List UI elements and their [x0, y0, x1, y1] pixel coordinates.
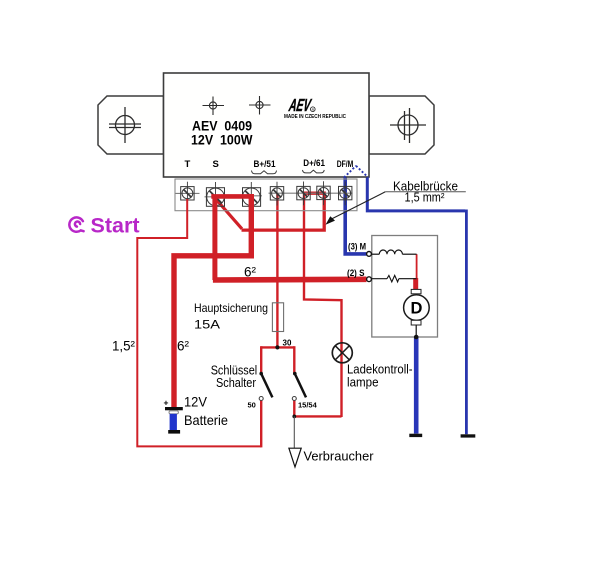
svg-text:15A: 15A: [194, 318, 220, 332]
svg-text:B+/51: B+/51: [254, 159, 277, 170]
svg-text:12V 100W: 12V 100W: [191, 133, 253, 148]
svg-text:DF/M: DF/M: [337, 159, 354, 169]
svg-text:50: 50: [248, 400, 256, 409]
svg-text:Schalter: Schalter: [216, 376, 256, 390]
svg-text:1,5 mm²: 1,5 mm²: [405, 191, 445, 205]
svg-text:Ladekontroll-: Ladekontroll-: [347, 363, 413, 377]
svg-text:D: D: [410, 300, 422, 318]
svg-text:AEV 0409: AEV 0409: [192, 119, 252, 134]
svg-text:S: S: [213, 159, 219, 170]
svg-text:T: T: [185, 159, 191, 170]
svg-text:Hauptsicherung: Hauptsicherung: [194, 301, 268, 315]
svg-text:6²: 6²: [177, 339, 189, 354]
svg-text:AEV: AEV: [287, 95, 313, 115]
svg-text:30: 30: [283, 339, 292, 348]
svg-text:12V: 12V: [184, 394, 208, 409]
svg-text:15/54: 15/54: [298, 400, 318, 409]
svg-text:+: +: [164, 398, 169, 408]
svg-text:6²: 6²: [244, 265, 256, 280]
svg-text:(2) S: (2) S: [347, 268, 365, 278]
svg-text:Verbraucher: Verbraucher: [304, 449, 375, 464]
svg-text:Start: Start: [91, 215, 140, 238]
svg-text:Batterie: Batterie: [184, 413, 228, 428]
svg-text:D+/61: D+/61: [303, 158, 325, 169]
svg-text:1,5²: 1,5²: [112, 339, 135, 354]
svg-text:MADE IN CZECH REPUBLIC: MADE IN CZECH REPUBLIC: [284, 114, 346, 120]
svg-text:(3) M: (3) M: [348, 242, 366, 252]
svg-text:lampe: lampe: [347, 376, 379, 390]
